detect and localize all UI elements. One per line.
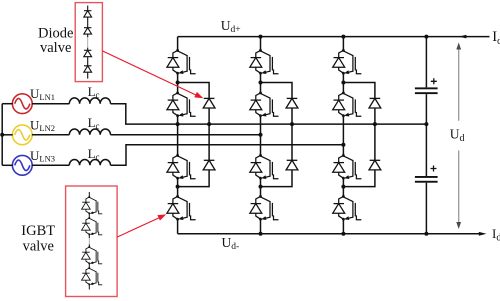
- node: phase A to capacitor midpoint: [424, 122, 428, 126]
- wire: source ULN3 to inductor Lc3: [32, 164, 69, 166]
- inductor Lc2: [69, 129, 110, 135]
- wire: leg2 clamp column upper (junction Q5-Q6 over to diode D7): [261, 83, 293, 99]
- svg-text:Ud: Ud: [450, 126, 465, 144]
- inductor Lc3: [69, 160, 110, 166]
- IGBT module Q1 (leg1 top): [167, 49, 196, 75]
- wire: leg1 clamp column middle: [208, 108, 210, 160]
- svg-text:ULN3: ULN3: [30, 148, 55, 164]
- IGBT module Q12 (leg3 bottom): [333, 195, 362, 221]
- diode D7 (leg2 upper clamp diode): [286, 98, 298, 108]
- wire: phase C line from Lc3 stepping up to leg 3 midpoint: [111, 145, 344, 166]
- inductor Lc1: [69, 98, 110, 104]
- diode D6 (leg1 lower clamp diode): [203, 160, 215, 170]
- leg 1 vertical wire segments: [177, 37, 179, 234]
- IGBT module Mv2 in IGBT valve: [82, 217, 103, 235]
- wire bottom stub: [88, 284, 90, 289]
- svg-text:ULN2: ULN2: [30, 117, 55, 133]
- node: leg3 junction Q11-Q12: [341, 185, 345, 189]
- wire Mv1-Mv2: [88, 213, 90, 218]
- node: phase A to leg2 clamp column: [290, 122, 294, 126]
- node: leg1 junction Q3-Q4: [176, 185, 180, 189]
- wire: bottom DC rail Ud-: [178, 233, 480, 235]
- node: phase C to leg3 vertical: [341, 143, 345, 147]
- wire: top DC rail Ud+: [178, 36, 490, 38]
- IGBT module Q10 (leg3 upper middle): [333, 92, 362, 118]
- wire: neutral bus on far left joining the three sources: [1, 104, 3, 166]
- svg-text:Lc: Lc: [88, 115, 100, 131]
- wire: leg1 clamp column lower returning to junction Q3-Q4: [178, 170, 210, 187]
- diode Dv1 in diode valve: [84, 11, 92, 17]
- capacitor C1 (upper DC link capacitor): [415, 87, 438, 94]
- svg-text:IGBT: IGBT: [21, 223, 55, 239]
- wire: DC link capacitor column: [425, 37, 427, 234]
- svg-text:Lc: Lc: [88, 146, 100, 162]
- AC source ULN2: [12, 125, 32, 145]
- AC source ULN3: [12, 155, 32, 175]
- svg-text:Id: Id: [492, 29, 500, 47]
- diode D10 (leg3 lower clamp diode): [369, 160, 381, 170]
- node: top rail to leg2 junction: [259, 35, 263, 39]
- svg-text:Lc: Lc: [88, 84, 100, 100]
- IGBT module Q11 (leg3 lower middle): [333, 154, 362, 180]
- wire: leg3 clamp column lower returning to junction Q11-Q12: [343, 170, 375, 187]
- diode D5 (leg1 upper clamp diode): [203, 98, 215, 108]
- IGBT module Mv3 in IGBT valve: [82, 246, 103, 264]
- node: top rail to leg3 junction: [341, 35, 345, 39]
- node: top rail to capacitor branch junction: [424, 35, 428, 39]
- node: bottom rail leg2 junction: [259, 232, 263, 236]
- node: bottom rail leg3 junction: [341, 232, 345, 236]
- current arrow Id (top, pointing left into bridge): [459, 35, 467, 39]
- node: leg3 junction Q9-Q10: [341, 81, 345, 85]
- node: leg1 junction Q1-Q2: [176, 81, 180, 85]
- wire: leg3 clamp column middle: [374, 108, 376, 160]
- diode Dv3 in diode valve: [84, 50, 92, 56]
- IGBT module Q9 (leg3 top): [333, 49, 362, 75]
- IGBT module Mv4 in IGBT valve: [82, 267, 103, 285]
- wire: source ULN1 left lead: [2, 103, 13, 105]
- node: phase A to leg1 clamp column: [207, 122, 211, 126]
- wire (bottom stub): [87, 72, 89, 78]
- current arrow Id (bottom, pointing right out of bridge): [479, 232, 487, 236]
- node: leg2 junction Q5-Q6: [259, 81, 263, 85]
- wire: leg2 clamp column middle: [291, 108, 293, 160]
- polarity + of C1: [431, 78, 437, 84]
- IGBT module Mv1 in IGBT valve: [82, 196, 103, 214]
- svg-text:Ud-: Ud-: [222, 235, 240, 252]
- wire: source ULN2 to inductor Lc2: [32, 134, 69, 136]
- AC source ULN1: [12, 94, 32, 114]
- IGBT module Q4 (leg1 bottom): [167, 195, 196, 221]
- svg-text:Id: Id: [492, 226, 500, 243]
- diode Dv4 in diode valve: [84, 66, 92, 72]
- wire: source ULN2 left lead: [2, 134, 13, 136]
- wire (dotted continuation) Mv2-Mv3: [88, 234, 90, 247]
- polarity + of C2: [431, 166, 437, 172]
- diode D8 (leg2 lower clamp diode): [286, 160, 298, 170]
- wire Mv3-Mv4: [88, 263, 90, 268]
- annotation box: IGBT valve (red): [66, 186, 118, 297]
- diode D9 (leg3 upper clamp diode): [369, 98, 381, 108]
- node: neutral bus to source ULN2: [0, 133, 4, 137]
- wire: phase A line from Lc1 stepping down to node line A: [111, 104, 427, 124]
- IGBT module Q3 (leg1 lower middle): [167, 154, 196, 180]
- wire: phase B line from Lc2 to leg 2 midpoint: [111, 134, 261, 136]
- IGBT module Q2 (leg1 upper middle): [167, 92, 196, 118]
- node: leg2 junction Q7-Q8: [259, 185, 263, 189]
- wire: source ULN3 left lead: [2, 164, 13, 166]
- IGBT module Q6 (leg2 upper middle): [250, 92, 279, 118]
- svg-text:valve: valve: [23, 239, 54, 255]
- svg-text:Ud+: Ud+: [221, 18, 241, 35]
- wire: leg1 clamp column upper (junction Q1-Q2 over to diode D5): [178, 83, 210, 99]
- node: phase B to leg2 vertical: [259, 133, 263, 137]
- leg 3 vertical wire segments: [342, 37, 344, 234]
- node: phase A to leg1 vertical: [176, 122, 180, 126]
- wire: leg2 clamp column lower returning to junction Q7-Q8: [261, 170, 293, 187]
- node: phase A to leg3 clamp column: [373, 122, 377, 126]
- svg-text:Diode: Diode: [38, 25, 73, 41]
- wire: leg3 clamp column upper (junction Q9-Q10 over to diode D9): [343, 83, 375, 99]
- red callout arrow from diode valve box to clamp diode D5: [102, 51, 203, 98]
- red callout arrow from IGBT valve box to module Q4: [117, 214, 166, 237]
- wire (dotted continuation) Dv2-Dv3: [87, 34, 89, 50]
- diode valve stack wire (top stub): [87, 6, 89, 11]
- svg-text:ULN1: ULN1: [30, 86, 55, 102]
- IGBT module Q7 (leg2 lower middle): [250, 154, 279, 180]
- IGBT module Q5 (leg2 top): [250, 49, 279, 75]
- svg-text:valve: valve: [40, 40, 71, 56]
- annotation box: diode valve (red): [75, 3, 102, 82]
- IGBT valve stack top stub: [88, 192, 90, 197]
- diode Dv2 in diode valve: [84, 28, 92, 34]
- wire Dv3-Dv4: [87, 57, 89, 66]
- wire: source ULN1 to inductor Lc1: [32, 103, 69, 105]
- capacitor C2 (lower DC link capacitor): [415, 176, 438, 183]
- voltage arrow Ud (double headed, right side): [456, 43, 461, 230]
- leg 2 vertical wire segments: [260, 37, 262, 234]
- node: bottom rail capacitor branch junction: [424, 232, 428, 236]
- wire Dv1-Dv2: [87, 17, 89, 28]
- IGBT module Q8 (leg2 bottom): [250, 195, 279, 221]
